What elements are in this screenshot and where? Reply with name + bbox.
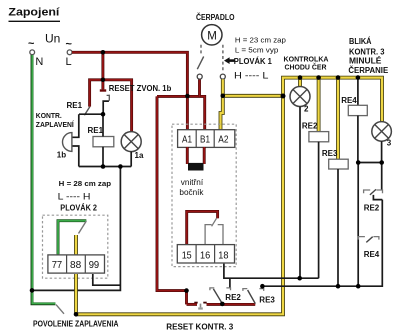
wire yellow riser and top bus bbox=[283, 78, 382, 122]
dashed box plovak 2 bbox=[43, 215, 108, 278]
wire red bottom bus with button gap bbox=[187, 303, 198, 306]
wire yellow RE2 coil drop bbox=[317, 79, 321, 132]
junction L line to reset-zvon branch bbox=[101, 50, 106, 55]
junction red bus RE2 blade bbox=[220, 302, 225, 307]
wire black lamp 3 down bbox=[381, 141, 383, 162]
wire black speaker bottom lead bbox=[73, 146, 79, 167]
svg-text:RE2: RE2 bbox=[364, 204, 380, 213]
contact RE4 blade bbox=[366, 237, 372, 243]
svg-text:ČERPADLO: ČERPADLO bbox=[196, 13, 235, 22]
lamp 1a bbox=[130, 131, 132, 133]
junction bus RE3 coil bbox=[336, 75, 341, 80]
float switch 2 blade bbox=[79, 221, 87, 234]
svg-text:PLOVÁK 2: PLOVÁK 2 bbox=[60, 203, 97, 212]
wire green 77 riser bbox=[58, 221, 86, 255]
switch povolenie blade bbox=[56, 305, 64, 314]
svg-text:RE4: RE4 bbox=[364, 250, 380, 259]
svg-text:RE3: RE3 bbox=[259, 295, 275, 304]
wire black bottom bus RE1 group bbox=[79, 166, 131, 168]
contact RE3 bottom brackets bbox=[243, 289, 264, 291]
terminal block 77 88 99 bbox=[48, 255, 105, 273]
terminal L bbox=[67, 50, 72, 55]
svg-text:RE4: RE4 bbox=[341, 96, 357, 105]
wire black RE4 column down bbox=[357, 163, 359, 287]
junction reset-zvon node bbox=[101, 78, 106, 83]
wire red reset kontr.3 long line bbox=[157, 96, 187, 304]
motor M circle bbox=[202, 25, 222, 45]
contact RE4 brackets bbox=[358, 237, 379, 240]
float switch 1 right dashed link bbox=[222, 45, 224, 72]
wire yellow 88 down to bottom bus bbox=[74, 274, 78, 314]
svg-text:16: 16 bbox=[200, 250, 210, 262]
svg-text:2: 2 bbox=[304, 105, 309, 114]
wire black lamp 1a bottom bbox=[130, 152, 132, 167]
contact RE2 bottom blade bbox=[213, 289, 222, 304]
junction bus lamp2 bbox=[298, 75, 303, 80]
float switch 1 right contact bbox=[220, 74, 225, 79]
junction yellow riser to bus bbox=[281, 94, 286, 99]
relay contact RE1 blade bbox=[84, 107, 89, 115]
svg-text:MINULÉ: MINULÉ bbox=[349, 57, 381, 66]
button RESET KONTR.3 nubs and plunger bbox=[194, 302, 197, 304]
float switch 1 left blade bbox=[197, 57, 203, 70]
lamp 3 bbox=[372, 122, 392, 142]
wire red riser to float contact bbox=[198, 79, 201, 96]
buzzer 1b half-circle bbox=[63, 133, 72, 152]
wire black RE4 coil drop bbox=[357, 79, 359, 105]
terminal block 15 16 18 bbox=[177, 245, 234, 263]
relay internal contact blade bbox=[212, 218, 217, 226]
wire black RE1 contact bottom bbox=[79, 113, 103, 115]
wire black 99 down and to drop bbox=[93, 274, 121, 285]
relay coil RE4 bbox=[348, 105, 367, 115]
svg-text:77: 77 bbox=[52, 259, 63, 271]
svg-text:15: 15 bbox=[182, 250, 192, 262]
wire black RE1 coil vertical bbox=[102, 114, 104, 166]
svg-text:POVOLENIE ZAPLAVENIA: POVOLENIE ZAPLAVENIA bbox=[33, 319, 119, 328]
junction green N bottom bbox=[30, 288, 35, 293]
wire yellow RE3 coil drop bbox=[336, 79, 340, 159]
svg-text:1a: 1a bbox=[135, 151, 144, 160]
svg-text:bočník: bočník bbox=[179, 188, 204, 197]
wire red terminal 15 riser bbox=[187, 211, 218, 244]
svg-text:L: L bbox=[66, 56, 72, 68]
svg-text:~: ~ bbox=[28, 38, 35, 50]
svg-text:KONTR. 3: KONTR. 3 bbox=[349, 48, 385, 57]
wire yellow float to A2 and right bbox=[221, 79, 223, 130]
terminal N bbox=[30, 50, 35, 55]
junction lamp3 column crosslink bbox=[379, 160, 384, 165]
svg-text:RE2: RE2 bbox=[225, 293, 241, 302]
junction RE3 contact to bottom bus bbox=[260, 284, 265, 289]
svg-text:RESET ZVON. 1b: RESET ZVON. 1b bbox=[109, 84, 172, 93]
svg-text:RESET KONTR. 3: RESET KONTR. 3 bbox=[166, 323, 233, 332]
relay internal contact box bbox=[205, 225, 223, 245]
junction yellow bottom bus at 88 bbox=[74, 312, 79, 317]
junction L to A1 B1 float bbox=[185, 94, 190, 99]
wire black RE3 coil down bbox=[337, 169, 339, 286]
svg-text:3: 3 bbox=[387, 139, 392, 148]
svg-text:ZAPLAVENÍ: ZAPLAVENÍ bbox=[36, 120, 75, 129]
junction RE1 contact to coil bbox=[101, 112, 106, 117]
contact RE2 right brackets bbox=[364, 190, 383, 193]
junction lamp2 wire to 18 line bbox=[297, 276, 302, 281]
svg-text:CHODU ČER: CHODU ČER bbox=[285, 63, 327, 72]
wire black bottom right bus bbox=[262, 200, 382, 287]
wire red A1 to shunt bbox=[186, 147, 189, 164]
svg-text:Zapojení: Zapojení bbox=[8, 7, 60, 19]
wire black RE2 coil down bbox=[318, 142, 320, 278]
wire red L feed top bbox=[72, 52, 187, 130]
dashed box middle relay bbox=[172, 124, 236, 266]
contact RE2 bottom brackets bbox=[210, 288, 231, 290]
internal shunt block bbox=[188, 163, 204, 171]
svg-text:99: 99 bbox=[89, 259, 100, 271]
wire red L branch down to reset node bbox=[101, 52, 104, 80]
svg-text:18: 18 bbox=[218, 250, 228, 262]
wire black lamp 2 down bbox=[299, 107, 301, 279]
relay coil RE3 bbox=[329, 159, 349, 169]
wire black terminal 18 to right bbox=[224, 264, 319, 279]
svg-text:A2: A2 bbox=[218, 134, 228, 146]
svg-text:A1: A1 bbox=[182, 134, 192, 146]
svg-text:N: N bbox=[35, 56, 43, 68]
svg-text:H ---- L: H ---- L bbox=[234, 71, 269, 81]
svg-text:1b: 1b bbox=[57, 151, 66, 160]
wire black RE3 contact to bottom bus bbox=[261, 286, 263, 288]
wire red junction A1/B1 horizontal bbox=[157, 96, 205, 129]
float switch 1 left dashed link bbox=[200, 45, 202, 55]
junction bus RE2 coil bbox=[316, 75, 321, 80]
wire black button to contact node bbox=[103, 101, 109, 114]
junction RE3 coil bottom bus bbox=[336, 284, 341, 289]
svg-text:PLOVÁK 1: PLOVÁK 1 bbox=[234, 57, 273, 66]
svg-text:vnitřní: vnitřní bbox=[181, 178, 204, 187]
float switch 1 left contact bbox=[197, 74, 202, 79]
contact RE2 right blade bbox=[370, 189, 376, 195]
svg-text:L = 5cm vyp: L = 5cm vyp bbox=[235, 46, 279, 55]
wire black RE2 contact jog bbox=[373, 195, 382, 200]
junction RE4 column bottom bus bbox=[356, 284, 361, 289]
wire yellow horizontal to right column bbox=[223, 94, 283, 98]
wire black drop from bus to bottom left bbox=[32, 167, 120, 291]
svg-text:88: 88 bbox=[70, 259, 81, 271]
svg-text:H = 28 cm zap: H = 28 cm zap bbox=[59, 179, 112, 188]
junction float switch yellow node bbox=[221, 94, 226, 99]
relay coil RE2 bbox=[309, 132, 329, 142]
wire green N vertical bbox=[31, 55, 34, 290]
terminal block A1 B1 A2 bbox=[178, 130, 235, 148]
svg-text:RE3: RE3 bbox=[322, 149, 338, 158]
junction RE4 column crosslink bbox=[356, 160, 361, 165]
wire yellow 88 riser bbox=[74, 235, 78, 254]
wire black RE4 coil down bbox=[357, 116, 359, 163]
wire black lamp3 column to RE2 contact bbox=[381, 163, 383, 190]
contact RE3 bottom blade bbox=[248, 290, 256, 304]
svg-text:RE1: RE1 bbox=[88, 126, 104, 135]
svg-text:RE2: RE2 bbox=[302, 121, 318, 130]
button RESET ZVON actuator tick bbox=[107, 95, 110, 101]
junction RE1 coil bottom bus bbox=[101, 164, 106, 169]
wire red reset node horizontal bbox=[90, 80, 132, 132]
wire black speaker top lead bbox=[73, 114, 79, 137]
svg-text:B1: B1 bbox=[200, 134, 210, 146]
wire yellow long down and bottom bus bbox=[76, 96, 283, 314]
junction red reset line corner bbox=[184, 288, 189, 293]
svg-text:H = 23 cm zap: H = 23 cm zap bbox=[235, 36, 286, 45]
junction bus RE4 coil bbox=[356, 75, 361, 80]
svg-text:Un: Un bbox=[45, 32, 60, 46]
relay coil RE1 bbox=[93, 137, 114, 147]
lamp 2 bbox=[290, 87, 310, 107]
junction 1a bus to drop wire bbox=[118, 164, 123, 169]
svg-text:RE1: RE1 bbox=[67, 101, 83, 110]
svg-text:M: M bbox=[207, 30, 217, 42]
wire black cross link 162.5 bbox=[358, 162, 382, 164]
lamp 2 stem bbox=[298, 79, 302, 87]
button RESET ZVON stem bbox=[101, 80, 104, 90]
wire black branch to RE2 contact bbox=[229, 278, 231, 288]
label PLOVÁK 1 with arrow bbox=[228, 59, 235, 62]
svg-text:BLIKÁ: BLIKÁ bbox=[349, 37, 372, 46]
svg-text:ČERPANIE: ČERPANIE bbox=[348, 66, 388, 75]
svg-text:~: ~ bbox=[66, 39, 73, 51]
svg-text:KONTR.: KONTR. bbox=[36, 111, 62, 120]
wire green bottom L to switch bbox=[32, 290, 55, 303]
svg-text:L ---- H: L ---- H bbox=[58, 191, 91, 201]
wire red B1 to shunt bbox=[203, 147, 206, 164]
junction dots group bbox=[30, 50, 384, 317]
